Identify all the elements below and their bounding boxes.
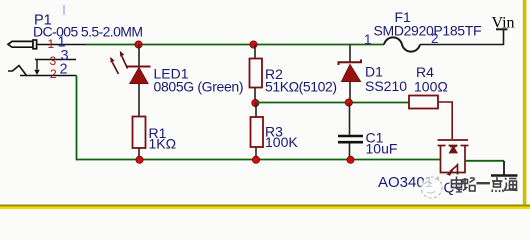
node middle rail R2/R3 [252,99,259,106]
svg-text:2: 2 [50,67,57,81]
channel segments [438,145,446,147]
svg-text:SMD2920P185TF: SMD2920P185TF [374,23,482,39]
ground bar [491,174,518,176]
diode D1 triangle [342,65,361,82]
svg-text:1: 1 [364,32,372,47]
wire middle rail [255,102,409,104]
P1 pin 2 line [20,75,77,77]
watermark text 电 [452,177,463,190]
svg-text:0805G (Green): 0805G (Green) [154,79,244,95]
wire R4 to gate [438,102,452,139]
node bottom rail C1 [347,156,354,163]
svg-text:10uF: 10uF [366,141,398,157]
transistor Q1 AO3401 [438,140,469,176]
node bottom rail R1 [136,156,143,163]
body diode [450,147,457,153]
ground stub [503,161,505,175]
wire top rail green [85,44,384,46]
P1 pin 3 line [35,59,76,61]
P1 pin 1 line [37,44,86,46]
resistor R3 wires [255,103,257,117]
yellow border bottom band [0,205,530,208]
watermark text 路 [463,178,475,191]
diode D1 wires [349,45,351,63]
resistor R4 [409,96,438,109]
watermark text 通 [504,178,518,191]
svg-text:51KΩ(5102): 51KΩ(5102) [265,79,337,95]
R1 bottom wire [138,148,140,160]
node middle rail D1 [345,99,352,106]
stray blue tick [63,5,65,15]
fuse F1 [384,37,420,51]
node top rail LED column [135,41,142,48]
bulk arrow [457,164,459,175]
watermark text 一 [477,182,491,184]
connector P1 barrel jack symbol [8,40,37,49]
LED1 emission arrows [110,51,127,74]
watermark text 点 [492,177,503,192]
watermark logo circle [421,177,442,198]
svg-text:1: 1 [48,37,55,51]
resistor R2 wires [254,45,256,59]
resistor R1 [133,117,146,149]
source drain taps [440,146,442,161]
yellow border right [523,0,527,207]
svg-text:SS210: SS210 [365,78,407,94]
node bottom rail R3 [252,156,259,163]
wire mosfet right to ground [465,160,504,162]
P1 switch arrow [34,60,39,76]
LED1 wires [138,45,140,67]
svg-text:1KΩ: 1KΩ [149,136,177,152]
wire bottom rail green [77,159,442,161]
LED1 symbol [127,67,151,84]
svg-text:100Ω: 100Ω [414,79,448,95]
wire fuse to Vin [420,30,504,45]
gate bar [438,139,469,141]
svg-text:3: 3 [50,54,57,68]
resistor R2 [250,59,263,88]
diode D1 schottky bar [339,60,362,66]
svg-text:100K: 100K [265,134,298,150]
wire pin2 vertical [76,76,79,160]
svg-text:Vin: Vin [492,15,515,32]
resistor R3 [251,117,264,147]
svg-text:2: 2 [60,62,68,78]
bulk loop [441,160,466,172]
node top rail R2 column [250,41,257,48]
watermark halo [452,177,518,192]
capacitor C1 [338,136,363,142]
capacitor C1 wires [349,103,351,135]
Vin port bar [496,28,508,30]
P1 switch blade zigzag [8,66,27,76]
